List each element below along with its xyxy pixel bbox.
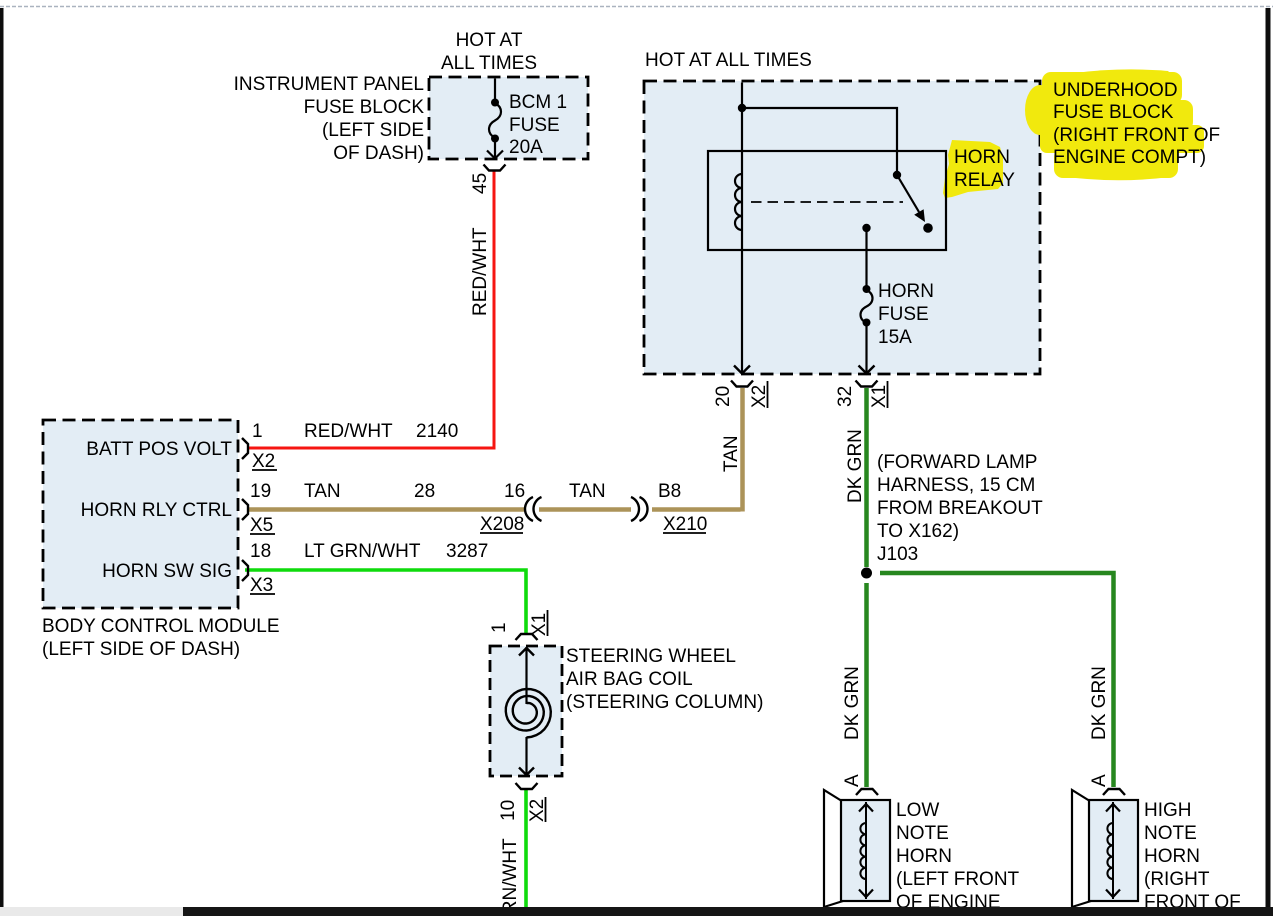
svg-text:HOT AT: HOT AT: [456, 30, 523, 51]
svg-text:1: 1: [489, 622, 510, 633]
relay coil: [735, 174, 742, 230]
svg-text:32: 32: [835, 386, 856, 407]
svg-text:HIGH: HIGH: [1144, 800, 1192, 821]
svg-text:FUSE BLOCK: FUSE BLOCK: [304, 97, 425, 118]
svg-text:HORN: HORN: [954, 147, 1010, 168]
BCM pin cup X3: [242, 560, 248, 581]
relay armature dashed link: [751, 201, 903, 203]
instrument panel fuse block box: [429, 77, 588, 159]
high note horn connector cap A: [1103, 789, 1125, 795]
yellow highlight UNDERHOOD FUSE BLOCK: [1025, 69, 1204, 180]
svg-text:X210: X210: [663, 514, 707, 535]
svg-text:DK GRN: DK GRN: [845, 429, 866, 503]
svg-text:FUSE: FUSE: [509, 115, 560, 136]
arrow at pin 20 exit: [734, 366, 750, 374]
svg-text:BCM 1: BCM 1: [509, 92, 567, 113]
svg-text:DK GRN: DK GRN: [1089, 666, 1110, 740]
wire node to switch: [742, 108, 897, 171]
svg-text:20: 20: [713, 386, 734, 407]
bottom scrollbar track: [0, 907, 1273, 916]
svg-text:16: 16: [504, 481, 525, 502]
svg-text:RED/WHT: RED/WHT: [470, 227, 491, 316]
steering connector cup X2 (below box): [516, 783, 538, 789]
svg-text:ALL TIMES: ALL TIMES: [441, 53, 537, 74]
svg-text:RELAY: RELAY: [954, 170, 1015, 191]
svg-text:FROM BREAKOUT: FROM BREAKOUT: [877, 498, 1043, 519]
svg-text:AIR BAG COIL: AIR BAG COIL: [566, 669, 693, 690]
dk green wire J103 to low note horn: [864, 583, 869, 787]
BCM pin cup X5: [242, 499, 248, 520]
svg-text:(LEFT FRONT: (LEFT FRONT: [896, 869, 1020, 890]
right window border: [1266, 8, 1271, 907]
svg-text:(LEFT SIDE OF DASH): (LEFT SIDE OF DASH): [42, 639, 240, 660]
svg-text:HORN SW SIG: HORN SW SIG: [102, 561, 232, 582]
underhood fuse block box: [644, 81, 1040, 374]
svg-text:GRN/WHT: GRN/WHT: [500, 838, 521, 916]
svg-text:HORN: HORN: [1144, 846, 1200, 867]
junction J103: [861, 568, 872, 579]
svg-text:HORN: HORN: [896, 846, 952, 867]
lt green wire LT GRN/WHT 3287: [245, 570, 526, 634]
wire common to horn fuse: [865, 228, 867, 288]
svg-text:STEERING WHEEL: STEERING WHEEL: [566, 646, 736, 667]
svg-text:TAN: TAN: [304, 481, 341, 502]
low note horn connector cap A: [856, 789, 878, 795]
connector cup pin 20: [731, 381, 753, 387]
lt green wire below steering coil: [524, 790, 528, 910]
svg-text:X3: X3: [250, 575, 273, 596]
svg-text:TAN: TAN: [721, 435, 742, 472]
clockspring spiral: [506, 689, 551, 738]
relay common terminal: [862, 224, 870, 232]
high note horn symbol: [1072, 790, 1138, 907]
svg-text:(STEERING COLUMN): (STEERING COLUMN): [566, 692, 763, 713]
svg-text:NOTE: NOTE: [1144, 823, 1197, 844]
low note horn symbol: [824, 790, 890, 907]
red wire RED/WHT 2140: [248, 171, 494, 448]
bottom scrollbar thumb: [0, 907, 183, 916]
tan wire TAN segment BCM to X208: [248, 507, 524, 512]
svg-text:HORN: HORN: [878, 281, 934, 302]
svg-text:(RIGHT FRONT OF: (RIGHT FRONT OF: [1053, 125, 1220, 146]
yellow highlight HORN RELAY: [943, 140, 1003, 198]
svg-text:A: A: [1089, 774, 1110, 787]
svg-text:HOT AT ALL TIMES: HOT AT ALL TIMES: [645, 50, 812, 71]
relay switch contact: [923, 223, 933, 233]
svg-text:UNDERHOOD: UNDERHOOD: [1053, 80, 1178, 101]
svg-text:20A: 20A: [509, 137, 543, 158]
svg-text:FUSE BLOCK: FUSE BLOCK: [1053, 102, 1174, 123]
dk green wire J103 branch to high note horn: [880, 573, 1114, 787]
svg-text:2140: 2140: [416, 421, 458, 442]
svg-text:HARNESS, 15 CM: HARNESS, 15 CM: [877, 475, 1035, 496]
svg-text:J103: J103: [877, 544, 918, 565]
svg-text:LT GRN/WHT: LT GRN/WHT: [304, 541, 421, 562]
svg-text:28: 28: [414, 481, 435, 502]
left window border: [0, 8, 4, 907]
connector cup pin 45: [484, 165, 506, 171]
svg-text:RED/WHT: RED/WHT: [304, 421, 393, 442]
svg-text:DK GRN: DK GRN: [842, 666, 863, 740]
svg-text:1: 1: [252, 421, 263, 442]
svg-text:X5: X5: [250, 515, 273, 536]
svg-text:TO X162): TO X162): [877, 521, 959, 542]
svg-text:HORN RLY CTRL: HORN RLY CTRL: [81, 500, 232, 521]
steering connector cap X1 (above box): [516, 634, 538, 640]
horn relay box: [708, 151, 946, 250]
relay switch arm: [897, 175, 919, 212]
svg-text:(FORWARD LAMP: (FORWARD LAMP: [877, 452, 1037, 473]
svg-text:A: A: [842, 774, 863, 787]
svg-text:10: 10: [498, 800, 519, 821]
svg-text:X2: X2: [252, 451, 275, 472]
svg-text:TAN: TAN: [569, 481, 606, 502]
svg-text:19: 19: [250, 481, 271, 502]
tan wire TAN segment X208 to X210: [539, 507, 631, 512]
svg-text:X208: X208: [480, 514, 524, 535]
arrow at pin 32 exit: [859, 366, 875, 374]
tan wire TAN segment X210 to pin 20: [652, 388, 743, 512]
dk green wire pin 32 to J103: [864, 388, 869, 567]
fuse BCM 1 FUSE 20A: [487, 79, 503, 159]
connector X208 arcs: [525, 497, 542, 521]
steering coil line with arrows: [525, 647, 527, 704]
connector cup pin 32: [856, 381, 878, 387]
BCM pin cup X2: [242, 438, 248, 459]
relay switch pivot: [893, 171, 901, 179]
svg-text:OF DASH): OF DASH): [333, 143, 424, 164]
svg-text:FUSE: FUSE: [878, 304, 929, 325]
svg-text:45: 45: [470, 173, 491, 194]
svg-text:18: 18: [250, 541, 271, 562]
marching-ants selection line: [0, 6, 1273, 8]
body control module box: [43, 420, 238, 608]
underhood: vertical wire from HOT AT: [741, 83, 743, 374]
svg-text:INSTRUMENT PANEL: INSTRUMENT PANEL: [234, 74, 424, 95]
svg-text:15A: 15A: [878, 327, 912, 348]
svg-text:BATT POS VOLT: BATT POS VOLT: [86, 439, 232, 460]
svg-text:(RIGHT: (RIGHT: [1144, 869, 1210, 890]
svg-text:ENGINE COMPT): ENGINE COMPT): [1053, 147, 1206, 168]
svg-text:NOTE: NOTE: [896, 823, 949, 844]
steering wheel air bag coil box: [490, 646, 562, 776]
connector X210 arcs: [631, 497, 648, 521]
svg-text:BODY CONTROL MODULE: BODY CONTROL MODULE: [42, 616, 280, 637]
svg-text:LOW: LOW: [896, 800, 939, 821]
node at relay coil feed: [738, 104, 746, 112]
svg-text:3287: 3287: [446, 541, 488, 562]
svg-text:B8: B8: [658, 481, 681, 502]
svg-text:(LEFT SIDE: (LEFT SIDE: [322, 120, 424, 141]
horn fuse 15A: [861, 290, 873, 372]
